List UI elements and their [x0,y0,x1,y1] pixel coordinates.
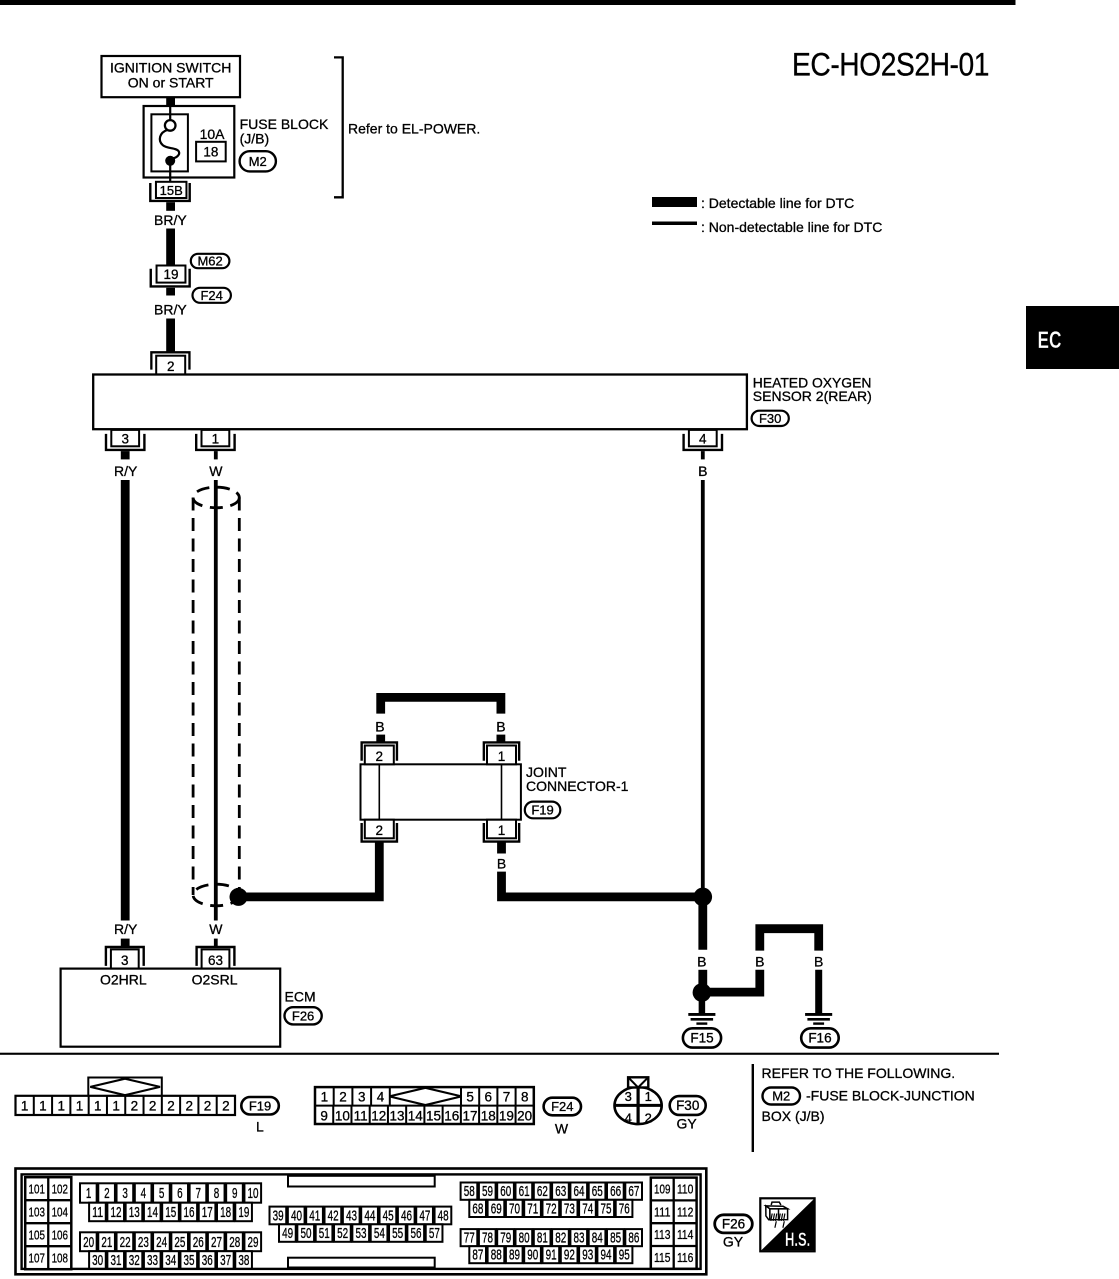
svg-text:37: 37 [220,1252,231,1269]
wire BR/Y to connector 2 [166,319,175,354]
svg-text:58: 58 [464,1183,475,1200]
svg-text:1: 1 [112,1098,120,1113]
svg-text:18: 18 [481,1108,496,1123]
separator line [0,1053,999,1055]
svg-text:46: 46 [401,1207,412,1224]
svg-text:3: 3 [358,1089,366,1104]
wire BR/Y to connector 19 [166,229,175,266]
svg-text:GY: GY [723,1233,744,1249]
svg-text:73: 73 [564,1200,575,1217]
svg-text:67: 67 [628,1183,639,1200]
svg-text:24: 24 [156,1234,167,1251]
svg-text:16: 16 [184,1204,195,1221]
svg-text:ON or START: ON or START [128,75,214,91]
connector pin 4 box (sensor) [689,430,717,446]
svg-text:23: 23 [138,1234,149,1251]
svg-text:11: 11 [92,1204,103,1221]
svg-text:R/Y: R/Y [114,921,138,937]
ECM pin 3 bracket [106,947,144,966]
svg-text:103: 103 [29,1204,45,1219]
joint connector pin 1 top box [487,746,516,765]
svg-text:(J/B): (J/B) [240,131,270,147]
svg-text:10: 10 [335,1108,350,1123]
svg-text:40: 40 [291,1207,302,1224]
connector pin 4 bracket (sensor) [684,434,722,450]
svg-text:1: 1 [321,1089,329,1104]
ignition switch box [102,56,241,97]
svg-text:W: W [209,921,223,937]
svg-text:1: 1 [76,1098,84,1113]
F26 pins 11-19 [89,1203,252,1222]
svg-text:82: 82 [555,1230,566,1247]
svg-text:2: 2 [645,1111,652,1126]
svg-text:64: 64 [574,1183,585,1200]
svg-text:61: 61 [519,1183,530,1200]
svg-text:107: 107 [29,1250,45,1265]
svg-text:41: 41 [309,1207,320,1224]
wire branch bridge [760,929,819,951]
svg-text:113: 113 [654,1227,670,1242]
legend divider line [752,1064,754,1152]
svg-text:19: 19 [238,1204,249,1221]
svg-text:4: 4 [625,1111,632,1126]
connector F30 keying tab [628,1077,648,1087]
joint connector pin line right [501,764,503,819]
svg-text:6: 6 [177,1185,183,1202]
joint connector pin line left [378,764,380,819]
wire stub pin 4 [701,451,705,459]
svg-text:79: 79 [500,1230,511,1247]
svg-text:3: 3 [121,953,129,968]
svg-text:: Non-detectable line for DTC: : Non-detectable line for DTC [701,219,882,235]
wire fuse to connector 15B [169,161,171,182]
wire into fuse [169,104,171,120]
joint connector top left bracket [362,742,397,760]
svg-text:108: 108 [52,1250,68,1265]
svg-text:112: 112 [677,1204,693,1219]
svg-text:B: B [496,719,505,735]
svg-text:44: 44 [364,1207,375,1224]
svg-text:4: 4 [377,1089,385,1104]
svg-text:9: 9 [320,1108,328,1123]
connector M2 oval (refer) [763,1088,801,1105]
svg-text:66: 66 [610,1183,621,1200]
svg-text:109: 109 [654,1182,670,1197]
joint connector top right bracket [484,742,519,760]
svg-text:65: 65 [592,1183,603,1200]
connector F19 view key box [88,1078,162,1097]
svg-text:B: B [698,463,707,479]
svg-text:8: 8 [214,1185,220,1202]
svg-text:1: 1 [57,1098,65,1113]
wire joint bottom right to junction [502,872,703,897]
wire ground junction to F16 branch [702,970,760,992]
svg-text:FUSE BLOCK: FUSE BLOCK [240,116,329,132]
svg-text:L: L [256,1118,264,1134]
wire B to ground junction [698,970,707,993]
svg-text:21: 21 [101,1234,112,1251]
svg-text:M2: M2 [772,1089,790,1104]
svg-text:34: 34 [165,1252,176,1269]
F26 pins 109-116 [651,1178,697,1269]
fuse number 18 box [196,142,226,162]
connector F26 oval (bottom) [715,1215,753,1233]
connector 15B bracket [150,183,189,201]
F26 pins 20-29 [80,1232,261,1251]
svg-text:59: 59 [482,1183,493,1200]
svg-text:6: 6 [485,1089,493,1104]
svg-text:35: 35 [184,1252,195,1269]
connector F19 oval (legend) [241,1097,278,1115]
svg-text:36: 36 [202,1252,213,1269]
svg-text:16: 16 [444,1108,459,1123]
svg-text:1: 1 [94,1098,102,1113]
wire 19 stub lower [166,288,175,296]
svg-text:25: 25 [174,1234,185,1251]
svg-text:26: 26 [193,1234,204,1251]
connector 2 pin box [156,356,185,375]
svg-text:F24: F24 [200,288,222,303]
connector 2 bracket [151,352,189,369]
svg-text:11: 11 [354,1108,368,1123]
svg-text:2: 2 [104,1185,110,1202]
legend non-detectable line sample [652,222,697,226]
fuse housing [151,114,188,171]
svg-text:93: 93 [582,1247,593,1264]
svg-text:29: 29 [248,1234,259,1251]
wire ignition switch to fuse block [166,97,175,106]
svg-text:105: 105 [29,1227,45,1242]
svg-text:70: 70 [509,1200,520,1217]
svg-text:69: 69 [491,1200,502,1217]
svg-text:5: 5 [159,1185,165,1202]
bracket refer to EL-POWER [334,57,343,197]
ECM connector F26 inner box [22,1174,701,1269]
svg-text:33: 33 [147,1252,158,1269]
svg-text:ECM: ECM [285,988,316,1004]
svg-text:92: 92 [564,1247,575,1264]
svg-text:2: 2 [167,1098,175,1113]
svg-text:: Detectable line for DTC: : Detectable line for DTC [701,195,854,211]
svg-text:F26: F26 [722,1216,745,1231]
svg-text:F30: F30 [676,1098,699,1113]
ground F15 oval [683,1028,721,1047]
svg-text:104: 104 [52,1204,68,1219]
svg-text:115: 115 [654,1250,670,1265]
svg-text:87: 87 [472,1247,483,1264]
svg-text:12: 12 [371,1108,386,1123]
svg-text:M2: M2 [249,154,267,169]
svg-text:5: 5 [466,1089,474,1104]
svg-text:54: 54 [374,1225,385,1242]
svg-text:B: B [755,953,764,969]
svg-text:116: 116 [677,1250,693,1265]
svg-text:SENSOR 2(REAR): SENSOR 2(REAR) [753,388,872,404]
svg-text:2: 2 [149,1098,157,1113]
wire stub joint left top [376,735,385,743]
connector 19 bracket [151,269,190,287]
F26 pins 77-86 [461,1229,642,1247]
svg-text:8: 8 [521,1089,529,1104]
svg-text:27: 27 [211,1234,222,1251]
svg-text:O2HRL: O2HRL [100,972,147,988]
svg-text:19: 19 [499,1108,514,1123]
connector F19 oval (joint) [525,802,561,819]
svg-text:94: 94 [601,1247,612,1264]
svg-text:68: 68 [472,1200,483,1217]
junction dot shield ground [230,888,248,906]
svg-text:111: 111 [654,1204,670,1219]
svg-text:CONNECTOR-1: CONNECTOR-1 [526,778,629,794]
connector F19 key diamond [90,1079,160,1096]
svg-text:1: 1 [498,823,506,838]
svg-text:2: 2 [339,1089,347,1104]
svg-text:13: 13 [129,1204,140,1221]
wire stub pin 3 [121,451,130,459]
ground symbol F16 [805,1014,832,1023]
svg-text:106: 106 [52,1227,68,1242]
joint connector pin 2 top box [365,746,394,765]
svg-text:20: 20 [517,1108,532,1123]
wire joint bottom left to ground bus [239,842,380,897]
svg-text:F16: F16 [808,1031,831,1046]
F26 pins 39-48 [270,1207,452,1225]
svg-text:72: 72 [546,1200,557,1217]
svg-text:3: 3 [625,1089,632,1104]
wire stub joint right top [496,735,505,743]
ground symbol F15 [688,1014,715,1023]
EC section tab [1026,306,1119,369]
svg-text:7: 7 [503,1089,511,1104]
svg-text:9: 9 [232,1185,238,1202]
svg-text:30: 30 [92,1252,103,1269]
svg-text:F30: F30 [759,411,781,426]
label FUSE BLOCK (J/B) [240,116,329,147]
svg-text:102: 102 [52,1181,68,1196]
shield around W wire (dashed) [193,487,239,906]
connector M62 oval [191,254,230,269]
svg-text:77: 77 [464,1230,475,1247]
svg-text:90: 90 [527,1247,538,1264]
svg-text:19: 19 [163,267,178,282]
svg-text:B: B [497,856,506,872]
ground F16 oval [801,1028,839,1047]
connector pin 1 bracket (sensor) [196,434,234,450]
junction dot ground node [693,983,712,1002]
svg-text:14: 14 [147,1204,158,1221]
svg-text:50: 50 [300,1225,311,1242]
svg-text:2: 2 [131,1098,139,1113]
svg-text:63: 63 [555,1183,566,1200]
svg-text:55: 55 [392,1225,403,1242]
svg-text:63: 63 [208,953,223,968]
svg-text:13: 13 [390,1108,405,1123]
connector 15B pin box [156,182,187,198]
svg-text:1: 1 [21,1098,29,1113]
joint connector pin 1 bottom box [487,820,516,839]
svg-text:2: 2 [167,359,175,374]
svg-text:1: 1 [86,1185,92,1202]
svg-text:EC: EC [1038,327,1062,354]
connector F30 oval (legend) [670,1096,706,1115]
svg-text:BOX (J/B): BOX (J/B) [762,1108,825,1124]
svg-text:2: 2 [186,1098,194,1113]
ECM pin 3 box [111,949,139,970]
wire stub joint bottom right [497,842,506,854]
svg-text:O2SRL: O2SRL [192,972,238,988]
joint connector bottom right bracket [484,823,519,842]
wire R/Y sensor to ECM [121,480,130,921]
fuse block box [144,106,235,178]
svg-text:52: 52 [337,1225,348,1242]
ECM connector F26 outer box [16,1169,707,1275]
svg-text:2: 2 [222,1098,230,1113]
svg-text:B: B [814,953,823,969]
svg-text:2: 2 [204,1098,212,1113]
svg-text:53: 53 [355,1225,366,1242]
connector pin 1 box (sensor) [202,430,230,446]
svg-text:60: 60 [500,1183,511,1200]
svg-text:B: B [375,719,384,735]
svg-text:43: 43 [346,1207,357,1224]
svg-text:84: 84 [592,1230,603,1247]
legend detectable line sample [652,197,697,207]
connector F26 oval (ECM) [285,1007,322,1024]
svg-text:114: 114 [677,1227,693,1242]
svg-text:2: 2 [376,823,384,838]
svg-text:7: 7 [195,1185,201,1202]
svg-text:49: 49 [282,1225,293,1242]
wire 15B stub [166,202,175,211]
svg-text:51: 51 [319,1225,330,1242]
svg-text:15: 15 [165,1204,176,1221]
wire W sensor to ECM [214,480,218,921]
svg-text:32: 32 [129,1252,140,1269]
F26 pins 58-67 [461,1183,642,1201]
svg-text:F24: F24 [551,1099,573,1114]
svg-text:1: 1 [498,749,506,764]
connector F19 pin row [16,1096,236,1115]
svg-text:85: 85 [610,1230,621,1247]
F26 top slot [288,1176,435,1187]
svg-text:62: 62 [537,1183,548,1200]
label JOINT CONNECTOR-1 [526,764,629,794]
joint connector bottom left bracket [362,823,397,842]
svg-text:91: 91 [546,1247,557,1264]
svg-text:39: 39 [273,1207,284,1224]
svg-text:4: 4 [141,1185,147,1202]
ECM box [61,969,281,1047]
joint connector pin 2 bottom box [365,820,394,839]
svg-text:89: 89 [509,1247,520,1264]
top border bar [0,0,1016,5]
F26 pins 1-10 [80,1183,261,1202]
svg-text:71: 71 [527,1200,538,1217]
svg-text:47: 47 [419,1207,430,1224]
svg-text:74: 74 [582,1200,593,1217]
svg-text:1: 1 [645,1089,652,1104]
svg-text:56: 56 [411,1225,422,1242]
F26 pins 101-108 [25,1177,71,1269]
svg-text:1: 1 [39,1098,47,1113]
junction dot B node [694,888,713,907]
wire stub to ECM pin 3 [121,939,130,947]
ECM pin 63 box [202,949,230,970]
svg-text:-FUSE BLOCK-JUNCTION: -FUSE BLOCK-JUNCTION [806,1087,975,1103]
svg-text:H.S.: H.S. [785,1229,810,1251]
wire junction down to B label [698,897,707,950]
F26 pins 49-57 [279,1224,442,1242]
svg-text:95: 95 [619,1247,630,1264]
svg-text:W: W [209,463,223,479]
svg-text:42: 42 [328,1207,339,1224]
svg-text:18: 18 [220,1204,231,1221]
ECM pin 63 bracket [197,947,235,966]
connector F30 oval (sensor) [752,411,789,426]
svg-text:Refer to EL-POWER.: Refer to EL-POWER. [348,121,480,137]
svg-text:BR/Y: BR/Y [154,212,187,228]
svg-text:18: 18 [203,144,218,159]
svg-text:17: 17 [462,1108,477,1123]
svg-text:15: 15 [426,1108,441,1123]
svg-text:M62: M62 [197,254,222,269]
svg-text:83: 83 [574,1230,585,1247]
svg-text:31: 31 [110,1252,121,1269]
svg-text:10A: 10A [200,126,226,142]
svg-text:F26: F26 [292,1008,314,1023]
svg-text:B: B [697,953,706,969]
svg-text:2: 2 [376,749,384,764]
svg-text:15B: 15B [160,183,183,198]
heated oxygen sensor 2 box [93,375,747,430]
svg-text:GY: GY [676,1115,697,1131]
connector pin 3 bracket (sensor) [106,434,144,450]
svg-text:14: 14 [408,1108,424,1123]
svg-text:22: 22 [120,1234,131,1251]
svg-text:81: 81 [537,1230,548,1247]
svg-text:45: 45 [383,1207,394,1224]
connector pin 3 box (sensor) [111,430,139,446]
svg-text:78: 78 [482,1230,493,1247]
svg-text:W: W [555,1120,569,1136]
svg-text:1: 1 [212,431,220,446]
wire B sensor to junction [701,480,705,892]
svg-text:76: 76 [619,1200,630,1217]
svg-text:75: 75 [601,1200,612,1217]
svg-text:F15: F15 [690,1031,713,1046]
connector F24 oval (pass-through) [193,288,231,303]
svg-text:86: 86 [628,1230,639,1247]
wire stem to ground F15 [699,993,706,1014]
svg-text:20: 20 [83,1234,94,1251]
label HEATED OXYGEN SENSOR 2(REAR) [753,375,872,405]
svg-text:10: 10 [248,1185,259,1202]
svg-text:38: 38 [238,1252,249,1269]
connector F24 key diamond [389,1088,461,1105]
H.S. logo [760,1198,814,1251]
svg-text:110: 110 [677,1182,693,1197]
wire bridge over joint connector [381,697,501,713]
F26 pins 30-38 [89,1251,252,1269]
connector F24 oval (legend) [544,1098,581,1116]
svg-text:28: 28 [229,1234,240,1251]
F26 pins 68-76 [469,1200,632,1218]
svg-text:4: 4 [699,431,707,446]
F26 pins 87-95 [469,1246,632,1264]
connector F30 view circle [615,1087,662,1126]
F26 bottom slot [288,1258,435,1268]
svg-text:REFER TO THE FOLLOWING.: REFER TO THE FOLLOWING. [762,1065,956,1081]
